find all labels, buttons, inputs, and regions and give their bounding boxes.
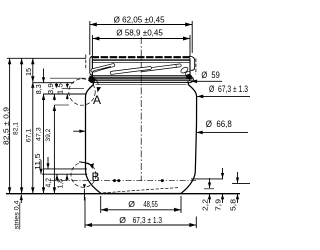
svg-text:Ø: Ø	[128, 199, 135, 209]
svg-text:82,1: 82,1	[13, 122, 20, 135]
dimension line d58.9	[92, 35, 190, 56]
svg-text:47,3: 47,3	[36, 127, 43, 141]
svg-text:Ø 58,9 ±0,45: Ø 58,9 ±0,45	[116, 28, 163, 38]
dim 8,3 arrow	[42, 69, 45, 83]
cap phantom outline	[92, 56, 191, 58]
knurl chain line	[50, 180, 196, 182]
svg-text:2,2: 2,2	[202, 199, 209, 211]
svg-text:5,8: 5,8	[230, 199, 237, 211]
heel pointer arrow	[83, 184, 86, 200]
dim 47,3	[42, 94, 45, 193]
dim 67,3 bottom	[85, 197, 196, 228]
neck bead	[88, 74, 193, 84]
detail circle A	[69, 79, 95, 105]
svg-text:82,5 ± 0,9: 82,5 ± 0,9	[4, 107, 11, 145]
svg-text:8,3: 8,3	[36, 84, 43, 94]
dim 4,2 arrows	[55, 174, 58, 181]
svg-text:39,2: 39,2	[45, 128, 52, 141]
svg-text:48,55: 48,55	[143, 199, 158, 209]
svg-text:4,2: 4,2	[45, 178, 52, 188]
neck extension line L2 y82.3	[33, 82, 74, 84]
top extension line left	[7, 57, 86, 59]
svg-text:3,9: 3,9	[48, 83, 55, 94]
dim 1,5 arrow	[66, 83, 69, 89]
shoulder extension line L3 y94	[43, 93, 86, 95]
dim 67,1	[31, 82, 34, 193]
svg-text:11,5: 11,5	[35, 153, 42, 170]
detail A arrow	[89, 76, 98, 85]
svg-text:Ø 67,3 ± 1.3: Ø 67,3 ± 1.3	[209, 84, 248, 94]
base contact line	[101, 193, 181, 195]
base pushup dashed	[103, 188, 179, 193]
svg-text:Ø 66,8: Ø 66,8	[206, 119, 232, 129]
svg-text:67,3 ± 1.3: 67,3 ± 1.3	[133, 215, 163, 225]
svg-text:1,8: 1,8	[57, 179, 64, 189]
svg-text:Ø 59: Ø 59	[201, 70, 219, 80]
svg-text:15: 15	[26, 68, 33, 76]
svg-text:Ø: Ø	[119, 215, 126, 225]
jar rim	[92, 58, 190, 76]
detail circle B	[71, 162, 96, 187]
svg-text:Ø 62,05 ±0,45: Ø 62,05 ±0,45	[114, 14, 165, 24]
dim 5,8	[236, 172, 239, 203]
dim 39,2	[53, 105, 56, 193]
knurl dots	[113, 179, 116, 182]
thread lugs	[91, 62, 191, 76]
shoulder tick y105	[54, 104, 69, 106]
svg-text:1,5: 1,5	[58, 83, 65, 94]
dim 15	[31, 58, 34, 82]
jar body outline left	[86, 82, 101, 193]
dim 66,8 left arrow	[73, 130, 85, 133]
svg-text:7,9: 7,9	[215, 199, 222, 211]
jar body outline right	[181, 82, 197, 193]
dim 7,9	[221, 168, 224, 203]
dim 2,2	[208, 178, 211, 203]
dim 48,55	[101, 196, 181, 213]
neck extension line L1 y78.2	[50, 77, 86, 79]
shoulder dim arrow pair	[66, 94, 69, 99]
svg-text:A: A	[93, 93, 101, 107]
right bottom feature lines	[191, 178, 223, 180]
dim 3,9 arrow	[53, 83, 58, 101]
detail B arrow	[79, 162, 91, 166]
dim 82,5	[8, 58, 11, 193]
d66,8 leader	[196, 131, 248, 135]
svg-text:B: B	[92, 170, 100, 184]
svg-text:67,1: 67,1	[26, 128, 33, 142]
lower-left feature line 11,5	[44, 168, 87, 170]
baseline extension	[6, 193, 240, 195]
centerline	[140, 37, 142, 181]
d67,3 right leader	[197, 95, 250, 99]
d59 leader	[191, 80, 222, 84]
dim 82,1	[20, 58, 23, 193]
dim 11,5	[39, 157, 49, 174]
dim 1,8 arrows	[65, 174, 68, 181]
top dimension line d62.05	[90, 21, 192, 55]
